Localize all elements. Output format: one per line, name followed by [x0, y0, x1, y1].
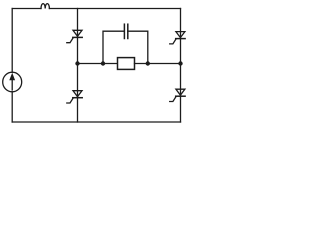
wire: snubber branch left riser — [103, 31, 124, 63]
wire: left outer rail upper (to current source) — [11, 9, 13, 73]
thyristor Q3 (bottom-left) — [67, 91, 82, 103]
current source I1 — [3, 72, 22, 92]
node: junction snubber-right / middle bus — [146, 61, 150, 65]
wire: middle bus left of resistor — [78, 63, 118, 65]
node: junction snubber-left / middle bus — [101, 61, 105, 65]
wire: top bus left segment — [12, 8, 41, 10]
wire: right outer rail — [180, 9, 182, 123]
capacitor C1 — [124, 24, 127, 38]
inductor L1 — [41, 4, 49, 9]
thyristor Q2 (top-right) — [170, 32, 185, 44]
resistor R1 — [118, 58, 135, 70]
wire: bottom bus — [12, 121, 180, 123]
wire: top bus right segment — [49, 8, 180, 10]
thyristor Q4 (bottom-right) — [170, 89, 185, 101]
thyristor Q1 (top-left) — [67, 30, 82, 42]
wire: snubber branch right riser — [128, 31, 148, 63]
node: junction right rail / middle bus — [178, 61, 182, 65]
wire: inner left leg — [77, 9, 79, 123]
wire: left outer rail lower — [11, 92, 13, 122]
wire: middle bus right of resistor — [135, 63, 181, 65]
node: junction inner-left / middle bus — [75, 61, 79, 65]
